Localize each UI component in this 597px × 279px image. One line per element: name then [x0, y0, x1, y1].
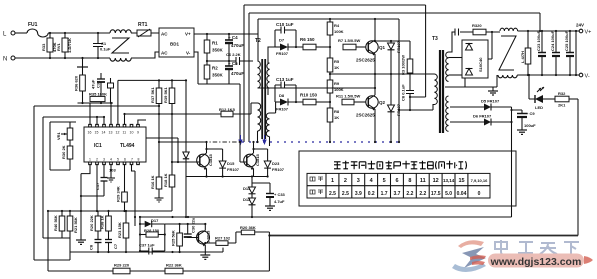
svg-text:7,9,10,16: 7,9,10,16 [471, 178, 488, 183]
resistor R18 1K [163, 173, 175, 211]
choke Z core [499, 36, 516, 70]
wire snubber row [449, 23, 501, 52]
resistor R8 1K [327, 102, 340, 142]
svg-text:C24 100uF: C24 100uF [550, 30, 555, 51]
svg-text:D5 FR107: D5 FR107 [481, 99, 500, 104]
pins top row [88, 124, 140, 134]
inductor L1 4.7uH [520, 31, 531, 75]
svg-text:1-D/71K: 1-D/71K [67, 38, 72, 53]
svg-text:0.1uF: 0.1uF [100, 47, 111, 52]
primary winding [258, 61, 261, 88]
wire base row [172, 161, 200, 163]
svg-text:0: 0 [478, 191, 481, 197]
svg-text:R10 150: R10 150 [300, 93, 318, 98]
svg-text:350K: 350K [212, 73, 224, 78]
wire aux supply row [140, 216, 512, 218]
svg-text:3.7: 3.7 [394, 191, 401, 197]
primary winding [435, 74, 438, 104]
wire mid junction [207, 60, 236, 62]
svg-text:AC: AC [161, 32, 168, 37]
svg-text:C7: C7 [113, 243, 118, 249]
svg-text:C30 22u: C30 22u [191, 217, 196, 233]
secondary lower winding [266, 113, 269, 137]
wire rail B drop right [539, 13, 541, 31]
wire pin7 to D17 column [132, 165, 136, 226]
zener DW [183, 80, 189, 217]
capacitor C5 470uF [225, 61, 244, 84]
svg-text:R40 56K: R40 56K [53, 215, 58, 231]
svg-text:100uF: 100uF [524, 123, 536, 128]
wire N tap [82, 58, 84, 67]
resistor R32 2K1 [555, 91, 578, 108]
svg-text:R22 36K: R22 36K [166, 263, 182, 268]
secondary upper winding [446, 52, 449, 82]
secondary lower winding [446, 96, 449, 131]
svg-text:RV1: RV1 [56, 43, 61, 51]
svg-text:6: 6 [395, 178, 398, 184]
svg-text:AC: AC [161, 51, 168, 56]
svg-text:C32: C32 [96, 80, 101, 88]
wire rail A drop [410, 5, 426, 97]
wire Q5 collector [204, 224, 206, 230]
node L terminal [3, 31, 15, 38]
wire Q2 emitter to rail [374, 109, 376, 142]
op-amp U1 TL494 [84, 127, 146, 162]
resistor R20 22K [89, 211, 101, 240]
wire T3 primary taps [433, 74, 435, 110]
transformer T2 [255, 38, 270, 139]
resistor R10 150 [300, 93, 330, 105]
resistor R36 620 [74, 67, 86, 103]
resistor R12 1K5 [219, 103, 258, 117]
wire VR1 bottom to frame [50, 122, 70, 170]
svg-text:2K1: 2K1 [558, 103, 566, 108]
svg-text:1K: 1K [334, 65, 339, 70]
resistor R4 100K [327, 19, 343, 47]
svg-text:R32: R32 [558, 91, 566, 96]
svg-text:9: 9 [137, 131, 139, 135]
svg-text:D7: D7 [279, 38, 285, 43]
table frame box [299, 151, 516, 206]
resistor R38 1K [100, 211, 112, 240]
diode D8 FR107 [275, 93, 303, 112]
thermistor RT1 [131, 22, 159, 37]
svg-text:8: 8 [408, 178, 411, 184]
capacitor C30 22uF [184, 217, 199, 237]
resistor R16 1K [150, 175, 164, 202]
svg-text:100K: 100K [334, 29, 344, 34]
capacitor C37 1uF [139, 243, 165, 255]
diode D23 FR107 [264, 149, 285, 177]
svg-text:11: 11 [123, 131, 127, 135]
wire T3 primary bottom [399, 110, 433, 142]
svg-text:R29 24K: R29 24K [116, 186, 121, 202]
capacitor C24 100uF [550, 30, 560, 75]
svg-text:103: 103 [109, 168, 116, 173]
svg-text:470uF: 470uF [231, 43, 244, 48]
svg-text:IC1: IC1 [94, 143, 102, 149]
svg-text:R20 36K: R20 36K [240, 225, 256, 230]
resistor R1 350K [204, 34, 223, 61]
wire V+ output rail [518, 30, 579, 32]
wire IC right to Q3 base [146, 138, 178, 162]
blue arrow marker 2 [262, 135, 266, 145]
svg-text:R20 22K: R20 22K [89, 215, 94, 231]
svg-text:www.dgjs123.com: www.dgjs123.com [490, 256, 582, 268]
wire feedback R12 row [125, 114, 222, 124]
svg-text:1K: 1K [334, 115, 339, 120]
transistor Q4 C1815 [244, 153, 260, 170]
svg-text:3: 3 [103, 158, 105, 162]
transistor Q3 C1815 [197, 153, 213, 170]
resistor R29 220 [113, 263, 130, 274]
wire Q2 collector to midpoint [374, 74, 376, 95]
svg-text:C17: C17 [95, 182, 100, 190]
zener D12 [243, 194, 256, 218]
common-mode choke L0 top winding [110, 30, 131, 33]
svg-text:T2: T2 [255, 38, 261, 44]
svg-text:350K: 350K [212, 48, 224, 53]
node supply bar [77, 66, 88, 68]
svg-text:2SC2625: 2SC2625 [356, 58, 375, 63]
ground C33 [265, 206, 275, 210]
wire rail A [244, 5, 426, 142]
svg-text:R5: R5 [334, 59, 340, 64]
node N terminal [3, 56, 15, 63]
watermark text dian gong tian xia [495, 240, 579, 255]
wire right return [577, 99, 579, 236]
blue arrow marker 1 [238, 135, 242, 146]
svg-text:R3 100/2W: R3 100/2W [401, 55, 406, 75]
svg-text:2: 2 [96, 158, 98, 162]
svg-text:N: N [3, 57, 7, 63]
wire pin2 down [96, 165, 98, 211]
svg-text:1: 1 [89, 158, 91, 162]
svg-text:2.5: 2.5 [329, 191, 336, 197]
output choke top [500, 28, 518, 31]
svg-text:C10 1uF: C10 1uF [276, 22, 294, 27]
svg-text:C8: C8 [89, 244, 94, 250]
resistor R37 5K1 [150, 86, 162, 103]
transistor Q1 2SC2625 [356, 40, 386, 63]
header cells fake hanzi [310, 177, 323, 194]
svg-text:5.0: 5.0 [445, 191, 452, 197]
wire midpoint to T3 primary [330, 73, 433, 75]
svg-text:8: 8 [138, 158, 140, 162]
diode D15 FR107 [219, 149, 240, 177]
transistor Q2 2SC2625 [356, 95, 386, 118]
wire cluster bottom [78, 103, 114, 124]
wire choke bottom to bridge [131, 52, 159, 58]
resistor R40 56K [53, 211, 65, 238]
svg-text:D23: D23 [272, 161, 280, 166]
wire V- from bridge [194, 52, 240, 84]
svg-text:S10C40: S10C40 [478, 57, 483, 72]
svg-text:0.04: 0.04 [457, 191, 467, 197]
wire emitter rail blue dotted [242, 141, 400, 143]
capacitor C8b [89, 240, 102, 253]
node V- output terminal [579, 73, 590, 79]
svg-text:R7 1.5/0.5W: R7 1.5/0.5W [338, 38, 360, 43]
svg-text:R18 1K: R18 1K [163, 173, 168, 187]
svg-text:3: 3 [357, 178, 360, 184]
rectifier module D S10C40 [449, 32, 493, 87]
diode D17 [140, 218, 165, 227]
svg-text:11: 11 [420, 178, 426, 184]
svg-text:R1: R1 [212, 41, 218, 46]
svg-text:+ C4: + C4 [228, 35, 238, 40]
svg-text:17.5: 17.5 [431, 191, 441, 197]
wire rail B [249, 13, 540, 142]
table title fake hanzi [334, 161, 466, 170]
ground pin4 [110, 165, 112, 178]
svg-text:R29 220: R29 220 [114, 263, 130, 268]
fuse FU1 [27, 22, 48, 37]
wire pin1 down-left [81, 165, 90, 240]
svg-text:FU1: FU1 [28, 22, 38, 28]
wire T2 upper secondary taps [268, 30, 275, 95]
resistor R22 36K [165, 263, 183, 274]
wire emitter rail dashed black [159, 141, 203, 143]
diode D6 FR107 [450, 114, 512, 126]
wire aux output down [511, 107, 513, 217]
wire Q5 emitter [204, 245, 206, 255]
wire pin5 up [117, 80, 119, 124]
wire T2 lower secondary taps [270, 85, 276, 146]
svg-text:C1: C1 [101, 41, 107, 46]
svg-text:T3: T3 [432, 36, 438, 42]
wire rail C [258, 19, 399, 34]
svg-text:VR1: VR1 [56, 131, 61, 140]
wire bottom collector row [70, 238, 223, 260]
zener D10 [388, 74, 402, 142]
ground left [76, 240, 86, 244]
wire Q4 collector [254, 142, 268, 153]
svg-text:13,14: 13,14 [443, 178, 455, 183]
capacitor C13 1uF [275, 77, 296, 102]
svg-text:1.7: 1.7 [381, 191, 388, 197]
secondary upper winding [267, 63, 270, 88]
svg-text:R6 150: R6 150 [300, 37, 315, 42]
resistor R6 150 [300, 37, 330, 50]
pin voltage table [307, 173, 490, 198]
svg-text:4.7uF: 4.7uF [274, 199, 285, 204]
svg-text:3.9: 3.9 [355, 191, 362, 197]
svg-text:R11 1.5/0.5W: R11 1.5/0.5W [336, 94, 360, 99]
wire Q3 emitter down [206, 169, 208, 177]
wire pin15/14 to y117 [43, 117, 104, 124]
wire V- drop to emitter rail [239, 84, 241, 142]
transistor Q5 9013 [197, 230, 211, 247]
svg-text:R16 1K: R16 1K [150, 175, 155, 189]
svg-text:FR107: FR107 [276, 107, 289, 112]
svg-text:L 4/7H: L 4/7H [520, 51, 525, 63]
resistor R9 100K [327, 74, 343, 102]
wire D17 network right rail [164, 224, 166, 251]
svg-text:10: 10 [130, 131, 134, 135]
svg-text:7: 7 [131, 158, 133, 162]
capacitor C7b [105, 240, 118, 253]
svg-text:V+: V+ [185, 32, 191, 37]
choke core Z symbol [112, 38, 129, 53]
svg-text:R35 100K: R35 100K [89, 92, 107, 97]
svg-text:12: 12 [116, 131, 120, 135]
wire Q4 emitter [253, 169, 255, 177]
svg-text:Q2: Q2 [379, 100, 386, 105]
svg-text:15: 15 [458, 178, 464, 184]
wire long bottom return [269, 235, 578, 237]
svg-text:V-: V- [186, 51, 191, 56]
svg-text:R25 56K: R25 56K [171, 230, 176, 246]
snubber R3 C8 string [401, 41, 415, 110]
svg-text:FR107: FR107 [227, 167, 240, 172]
svg-text:2SC2625: 2SC2625 [356, 113, 375, 118]
svg-text:6: 6 [124, 158, 126, 162]
wire primary bottom T2 [258, 87, 376, 89]
resistor R23 15K [117, 211, 129, 252]
LED indicator [529, 75, 555, 110]
wire top row [48, 210, 172, 212]
svg-text:C6 2.2K: C6 2.2K [226, 52, 241, 57]
capacitor C4 470uF [225, 34, 244, 61]
wire pin8 right [138, 120, 146, 124]
svg-text:16: 16 [88, 131, 92, 135]
svg-text:12: 12 [433, 178, 439, 184]
svg-text:5: 5 [383, 178, 386, 184]
svg-text:TL494: TL494 [120, 143, 135, 149]
common-mode choke L0 bottom winding [110, 58, 131, 61]
svg-text:R38 1K: R38 1K [100, 215, 105, 229]
resistor R20b 36K [236, 225, 270, 235]
wire left frame lines [34, 106, 70, 260]
svg-text:R9: R9 [334, 81, 340, 86]
svg-text:R21 56K: R21 56K [73, 217, 78, 233]
wire left frame to Q3 [34, 105, 159, 107]
resistor R35 100K [89, 92, 107, 102]
svg-text:R2: R2 [212, 66, 218, 71]
wire rail C drop [398, 19, 400, 110]
pins bottom row [89, 158, 140, 165]
capacitor C32 47uF [91, 73, 106, 103]
svg-text:C25 100uF: C25 100uF [564, 30, 569, 51]
svg-text:C8 0.1uF: C8 0.1uF [401, 84, 406, 101]
svg-text:R37 5K1: R37 5K1 [150, 86, 155, 103]
varistor RV1 10D471K [56, 33, 72, 58]
capacitor C6 2.2K coupling [226, 52, 253, 65]
svg-text:+ C9: + C9 [526, 111, 535, 116]
svg-text:2: 2 [344, 178, 347, 184]
svg-text:RT1: RT1 [138, 22, 148, 28]
wire N to choke [15, 57, 110, 59]
svg-text:5: 5 [117, 158, 119, 162]
resistor R11 1.5/0.5W [336, 94, 366, 105]
svg-text:C37 1uF: C37 1uF [139, 243, 155, 248]
wire collector snubber row [375, 40, 410, 42]
svg-text:R30 2K: R30 2K [61, 145, 66, 159]
wire L to fuse [15, 32, 27, 34]
resistor R5 1K [327, 47, 340, 74]
capacitor C33 4.7uF [266, 183, 286, 206]
diode D5 FR107 [450, 99, 512, 111]
svg-text:FR107: FR107 [276, 51, 289, 56]
node V+ output terminal [576, 23, 591, 36]
wire network to Q5 [165, 223, 206, 225]
svg-text:C13 1uF: C13 1uF [276, 77, 294, 82]
svg-text:2.2: 2.2 [406, 191, 413, 197]
svg-text:V-: V- [585, 74, 590, 80]
svg-text:14: 14 [102, 131, 106, 135]
resistor R30 2K [61, 140, 73, 170]
wire V- output rail [517, 74, 579, 76]
wire Q4 base [240, 142, 247, 162]
svg-text:C1815: C1815 [208, 153, 213, 166]
svg-text:0.2: 0.2 [368, 191, 375, 197]
wire Q1 emitter to midpoint [374, 54, 376, 88]
wire junction down to bus [268, 232, 270, 271]
wire C17 to ground column [81, 195, 104, 197]
svg-text:V+: V+ [585, 30, 592, 36]
red banner [470, 254, 593, 269]
svg-text:2.5: 2.5 [342, 191, 349, 197]
ground C9 [517, 130, 527, 134]
svg-text:FR107: FR107 [272, 167, 285, 172]
svg-text:R27 102: R27 102 [215, 236, 231, 241]
wire R37 R39 columns [159, 80, 172, 177]
svg-text:24V: 24V [576, 23, 584, 28]
svg-text:15: 15 [95, 131, 99, 135]
capacitor C23 100uF [536, 30, 546, 75]
svg-text:D6 FR107: D6 FR107 [473, 114, 492, 119]
svg-text:R33: R33 [41, 43, 46, 51]
diode D7 FR107 [275, 38, 303, 57]
svg-text:470uF: 470uF [231, 71, 244, 76]
wire T2 feedback bottom tap [257, 131, 259, 142]
wire ground bus left [47, 211, 49, 271]
svg-text:13: 13 [109, 131, 113, 135]
resistor R29 24K [116, 165, 128, 211]
ground output [488, 87, 498, 95]
bridge rectifier BD1 [159, 28, 194, 57]
svg-text:C23 100uF: C23 100uF [536, 30, 541, 51]
svg-text:R36 620: R36 620 [74, 75, 79, 91]
capacitor C9 100uF [512, 110, 537, 130]
wire secondary center to ground row [445, 75, 497, 87]
svg-text:+ C33: + C33 [274, 192, 286, 197]
wire emitter row [186, 176, 268, 178]
resistor R33 470K [41, 33, 57, 58]
resistor R25 56K [171, 224, 183, 252]
resistor R28 150 [140, 228, 165, 237]
svg-text:D15: D15 [227, 161, 235, 166]
wire Q1 collector to V+ rail [374, 19, 376, 40]
svg-text:D8: D8 [279, 93, 285, 98]
capacitor C31 [108, 78, 114, 103]
feedback winding left [258, 103, 261, 131]
resistor R2 350K [204, 61, 223, 84]
resistor R39 5K1 [163, 86, 175, 103]
wire fuse to choke [48, 32, 110, 34]
wire V+ down to T2 primary [257, 34, 259, 61]
svg-text:1: 1 [331, 178, 334, 184]
output choke bottom [498, 75, 517, 78]
svg-text:Q1: Q1 [379, 45, 386, 50]
capacitor C25 100uF [564, 30, 574, 75]
wire V+ rail [194, 33, 258, 35]
logo swirl [452, 240, 486, 272]
capacitor C17 103 [95, 165, 116, 196]
svg-text:R39 5K1: R39 5K1 [163, 86, 168, 103]
svg-text:4: 4 [110, 158, 112, 162]
